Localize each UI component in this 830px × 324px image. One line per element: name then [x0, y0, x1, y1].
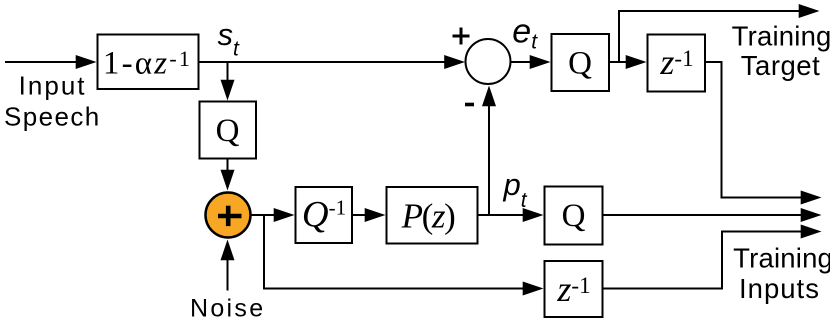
svg-text:Q: Q	[568, 46, 592, 82]
svg-text:Training: Training	[733, 242, 830, 273]
svg-text:P(z): P(z)	[401, 197, 455, 236]
svg-text:Target: Target	[741, 50, 820, 81]
svg-text:Noise: Noise	[190, 295, 265, 323]
svg-text:Inputs: Inputs	[739, 273, 820, 304]
svg-text:Speech: Speech	[4, 101, 101, 131]
svg-text:Q: Q	[562, 198, 586, 234]
svg-text:Input: Input	[19, 71, 87, 101]
svg-text:Training: Training	[732, 21, 830, 52]
svg-text:Q: Q	[216, 113, 240, 149]
